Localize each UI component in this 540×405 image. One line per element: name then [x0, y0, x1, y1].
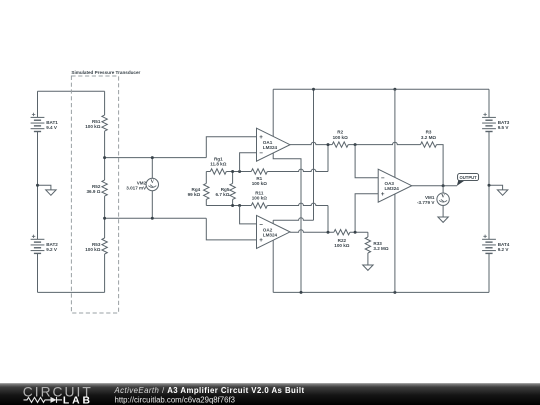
wire	[37, 132, 39, 240]
svg-text:V: V	[441, 195, 445, 200]
wire	[151, 191, 153, 219]
svg-text:9.4 V: 9.4 V	[46, 125, 58, 130]
wire	[38, 185, 51, 190]
ground	[46, 190, 56, 195]
wire	[272, 89, 274, 136]
svg-text:LM324: LM324	[263, 232, 278, 237]
wire	[272, 220, 274, 223]
battery BAT3 9.5 V	[482, 113, 510, 132]
node	[36, 184, 39, 187]
node	[231, 170, 234, 173]
battery BAT1 9.4 V	[31, 113, 59, 132]
wire	[273, 218, 313, 220]
resistor R2 100k	[332, 142, 348, 147]
wire	[437, 145, 444, 186]
resistor Rg4 99k	[204, 183, 209, 199]
node	[327, 231, 330, 234]
wire	[232, 172, 234, 184]
wire node B	[105, 217, 207, 219]
wire	[205, 199, 207, 205]
battery BAT2 9.2 V	[31, 235, 59, 254]
node	[238, 170, 241, 173]
ground	[363, 265, 373, 270]
node	[238, 204, 241, 207]
wire	[38, 291, 105, 293]
wire bottom rail	[273, 291, 489, 293]
node	[354, 231, 357, 234]
svg-text:100 kΩ: 100 kΩ	[85, 247, 100, 252]
wire	[488, 253, 490, 292]
resistor R53 100k	[102, 238, 107, 254]
wire	[206, 171, 210, 173]
svg-text:-3.779 V: -3.779 V	[417, 200, 435, 205]
dashed box Simulated Pressure Transducer	[71, 76, 118, 313]
wire	[232, 199, 234, 205]
resistor R3 3.2M	[421, 142, 437, 147]
svg-text:3.2 MΩ: 3.2 MΩ	[421, 135, 436, 140]
svg-text:LM324: LM324	[263, 145, 278, 150]
node	[354, 143, 357, 146]
wire	[442, 186, 444, 193]
wire	[327, 145, 329, 172]
svg-text:9.2 V: 9.2 V	[498, 247, 510, 252]
wire node A	[105, 157, 207, 159]
wire	[355, 194, 378, 233]
node	[393, 291, 396, 294]
wire	[313, 89, 315, 220]
wire	[37, 91, 39, 117]
wire	[37, 253, 39, 292]
wire	[104, 254, 106, 292]
wire	[206, 205, 251, 207]
wire	[267, 203, 328, 205]
op-amp OA3 LM324	[378, 169, 412, 202]
svg-text:100 kΩ: 100 kΩ	[252, 181, 267, 186]
wire	[367, 232, 369, 237]
wire top rail	[273, 88, 489, 90]
wire	[104, 196, 106, 238]
resistor R22 100k	[334, 230, 350, 235]
svg-text:ActiveEarth / A3 Amplifier Cir: ActiveEarth / A3 Amplifier Circuit V2.0 …	[114, 386, 305, 395]
svg-text:11.8 kΩ: 11.8 kΩ	[210, 162, 227, 167]
svg-text:36.9 Ω: 36.9 Ω	[86, 189, 100, 194]
svg-text:−: −	[259, 150, 263, 157]
svg-text:9.5 V: 9.5 V	[498, 125, 510, 130]
node	[103, 217, 106, 220]
svg-text:99 kΩ: 99 kΩ	[188, 192, 201, 197]
svg-text:9.2 V: 9.2 V	[46, 247, 58, 252]
svg-text:+: +	[259, 237, 263, 244]
svg-text:100 kΩ: 100 kΩ	[252, 196, 267, 201]
wire	[104, 131, 106, 180]
resistor R51 100k	[102, 115, 107, 131]
svg-text:100 kΩ: 100 kΩ	[334, 243, 349, 248]
node	[300, 291, 303, 294]
wire	[394, 194, 396, 292]
resistor Rg5 6.7k	[230, 183, 235, 199]
op-amp OA1 LM324	[257, 128, 291, 161]
wire	[104, 91, 106, 115]
wire	[488, 132, 490, 240]
wire	[290, 142, 332, 144]
wire	[272, 240, 274, 292]
wire	[355, 145, 378, 178]
wire	[240, 153, 257, 172]
wire	[442, 205, 444, 217]
svg-text:100 kΩ: 100 kΩ	[85, 124, 100, 129]
wire	[267, 169, 328, 171]
svg-text:V: V	[150, 180, 154, 185]
wire	[206, 218, 256, 240]
wire	[205, 172, 207, 184]
node	[151, 217, 154, 220]
wire	[350, 231, 368, 233]
svg-text:Simulated Pressure Transducer: Simulated Pressure Transducer	[71, 70, 140, 75]
voltmeter VM1 -3.779 V	[437, 193, 449, 205]
node	[151, 156, 154, 159]
battery BAT4 9.2 V	[482, 235, 510, 254]
wire	[489, 185, 503, 190]
svg-text:3.2 MΩ: 3.2 MΩ	[373, 246, 388, 251]
wire	[394, 89, 396, 177]
node	[327, 143, 330, 146]
svg-text:LM324: LM324	[385, 186, 400, 191]
wire	[290, 230, 334, 232]
wire	[151, 158, 153, 179]
wire	[273, 153, 301, 293]
wire	[327, 206, 329, 233]
wire	[367, 253, 369, 265]
resistor R1 100k	[251, 169, 267, 174]
resistor R52 36.9ohm	[102, 180, 107, 196]
op-amp OA2 LM324	[257, 215, 291, 248]
node	[231, 204, 234, 207]
svg-text:+: +	[381, 191, 385, 198]
svg-text:LAB: LAB	[63, 395, 93, 405]
node	[442, 184, 445, 187]
node	[488, 184, 491, 187]
ground	[438, 217, 448, 222]
wire	[226, 171, 251, 173]
wire	[206, 137, 256, 158]
svg-text:http://circuitlab.com/c6va29q8: http://circuitlab.com/c6va29q8f76f3	[115, 395, 236, 404]
flag OUTPUT	[457, 180, 465, 186]
svg-text:6.7 kΩ: 6.7 kΩ	[215, 192, 229, 197]
node	[103, 156, 106, 159]
resistor R11 100k	[251, 203, 267, 208]
node	[312, 88, 315, 91]
svg-text:3.017 mV: 3.017 mV	[126, 185, 147, 190]
wire	[412, 185, 457, 187]
node	[393, 88, 396, 91]
voltmeter VM2 3.017 mV	[146, 178, 158, 190]
svg-text:OUTPUT: OUTPUT	[459, 175, 477, 180]
ground	[497, 190, 507, 195]
svg-text:100 kΩ: 100 kΩ	[333, 135, 348, 140]
resistor R33 3.2M	[365, 237, 370, 253]
wire	[240, 206, 257, 224]
resistor Rg1 11.8k	[210, 169, 226, 174]
wire	[348, 142, 420, 144]
wire	[488, 89, 490, 117]
wire	[38, 90, 105, 92]
